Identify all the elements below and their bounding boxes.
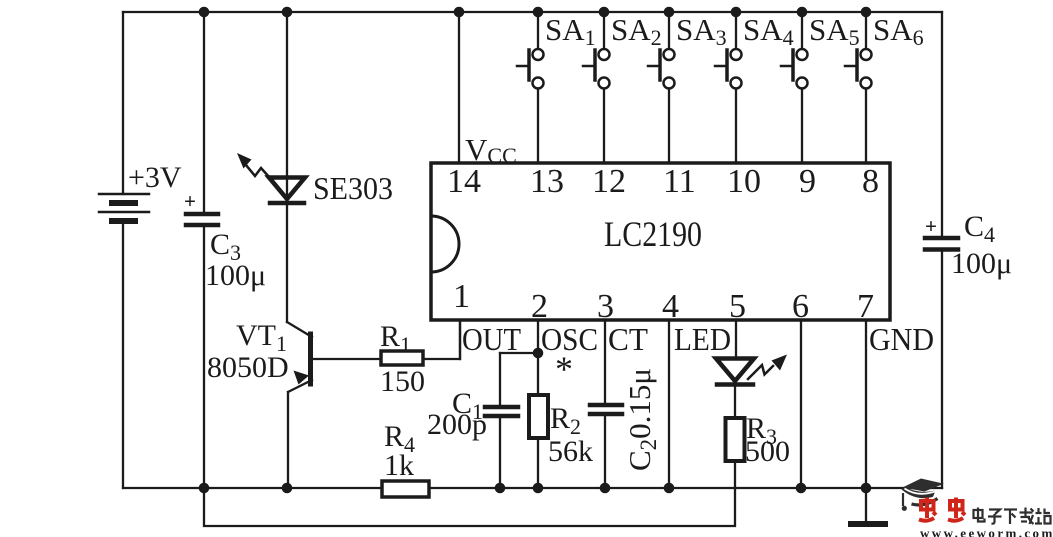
node top SA1 [533,7,544,18]
svg-text:100μ: 100μ [951,247,1012,280]
watermark text zai [1020,508,1034,525]
svg-text:13: 13 [530,163,564,200]
svg-text:+: + [184,189,196,213]
svg-text:9: 9 [799,163,816,200]
watermark text chong 2 [948,498,965,521]
switch SA1 [517,12,596,163]
node bottom emitter [282,483,293,494]
node bottom C1 [495,483,506,494]
switch SA3 [648,12,727,163]
svg-text:SA3: SA3 [676,12,727,50]
switch SA2 [583,12,662,163]
wire secondary bottom return [204,461,735,526]
svg-text:1k: 1k [384,449,414,482]
svg-text:3: 3 [597,288,614,325]
node top C3 [199,7,210,18]
wire pin 1 OUT down [459,321,461,359]
svg-text:C20.15μ: C20.15μ [622,368,661,471]
battery GB +3V [99,161,182,221]
svg-text:+3V: +3V [128,161,182,194]
svg-text:5: 5 [729,288,746,325]
resistor R4 1k [382,420,429,497]
svg-text:SE303: SE303 [313,170,393,206]
switch SA4 [715,12,794,163]
watermark text zhan [1035,508,1051,524]
wire bottom rail right of R4 [429,487,942,489]
svg-text:SA5: SA5 [809,12,860,50]
node top SA6 [861,7,872,18]
node bottom C3 [199,483,210,494]
svg-text:VCC: VCC [465,132,517,168]
svg-text:GND: GND [869,321,934,357]
resistor R2 56k [529,321,593,488]
wire bottom rail left of R4 [123,487,382,489]
svg-text:SA1: SA1 [545,12,596,50]
node bottom R2 [533,483,544,494]
svg-text:11: 11 [663,163,696,200]
node top SA4 [731,7,742,18]
transistor VT1 8050D [207,319,381,488]
watermark text chong 1 [919,498,936,521]
svg-text:*: * [555,349,573,389]
svg-text:8: 8 [862,163,879,200]
capacitor C4 100u [925,210,1012,280]
svg-text:1: 1 [453,278,470,315]
svg-text:SA2: SA2 [611,12,662,50]
wire left rail upper [122,12,124,194]
svg-text:500: 500 [745,435,790,468]
watermark text xia [1004,510,1017,525]
svg-text:12: 12 [592,163,626,200]
LED VD indicator [716,321,787,418]
capacitor C1 200p [427,353,538,488]
capacitor C2 0.15u [590,321,661,488]
wire pin 6 down [800,321,802,488]
svg-text:6: 6 [792,288,809,325]
svg-text:8050D: 8050D [207,351,289,384]
resistor R3 500 [726,412,791,468]
node OSC junction [533,348,544,359]
node top SA2 [599,7,610,18]
switch SA5 [781,12,860,163]
node top SA5 [797,7,808,18]
watermark text dian [974,508,985,522]
wire pin 4 down [668,321,670,488]
wire right rail lower [941,252,943,488]
node bottom pin4 [664,483,675,494]
svg-text:LED: LED [674,321,731,357]
svg-text:www.eeworm.com: www.eeworm.com [920,526,1053,537]
svg-text:OUT: OUT [462,321,521,357]
svg-text:200p: 200p [427,408,487,441]
node top SA3 [664,7,675,18]
switch SA6 [845,12,924,163]
node top SE303 [282,7,293,18]
svg-text:C4: C4 [964,210,995,247]
svg-text:SA6: SA6 [873,12,924,50]
wire top rail [123,11,942,13]
svg-text:+: + [925,214,937,238]
resistor R1 150 [380,320,460,398]
node bottom GND [861,483,872,494]
svg-text:R1: R1 [380,320,411,357]
svg-text:R2: R2 [550,402,581,439]
node bottom C2 [600,483,611,494]
node top VCC [454,7,465,18]
node bottom pin6 [796,483,807,494]
capacitor C3 [184,12,266,488]
svg-text:SA4: SA4 [743,12,794,50]
wire pin 14 to VCC rail [458,12,460,163]
svg-text:10: 10 [727,163,761,200]
svg-text:56k: 56k [548,435,593,468]
ground [851,488,885,524]
svg-text:4: 4 [662,288,679,325]
wire right rail upper [941,12,943,236]
svg-text:2: 2 [531,288,548,325]
wire left rail lower [122,221,124,488]
IC U1 LC2190 [431,163,890,320]
LED SE303 infrared emitter [237,12,393,322]
watermark text zi [988,510,1002,524]
svg-text:150: 150 [380,365,425,398]
svg-text:7: 7 [857,288,874,325]
svg-text:14: 14 [447,163,481,200]
wire pin 7 GND down [865,321,867,488]
svg-text:100μ: 100μ [205,259,266,292]
watermark logo cap [902,479,945,511]
svg-text:CT: CT [608,321,648,357]
svg-text:LC2190: LC2190 [604,214,702,254]
